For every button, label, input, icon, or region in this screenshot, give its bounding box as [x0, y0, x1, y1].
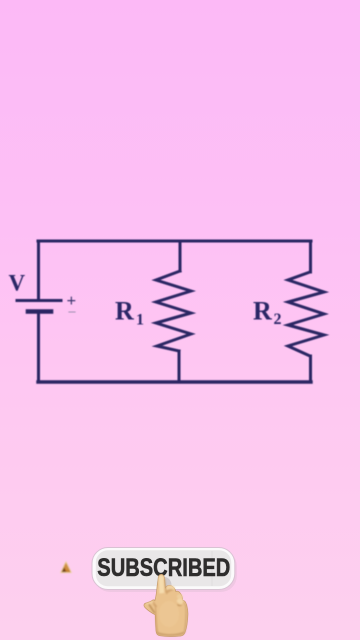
subscribed button — [92, 548, 237, 593]
thumb crease — [148, 604, 155, 613]
finger shadow on button — [165, 577, 172, 589]
wrist shadow — [157, 632, 184, 637]
play triangle — [61, 562, 72, 573]
wire right rail lower — [309, 356, 312, 382]
finger highlight — [159, 575, 164, 593]
svg-text:1: 1 — [136, 311, 144, 328]
wire bottom rail — [38, 380, 311, 383]
svg-text:R: R — [115, 297, 134, 326]
pinky notch — [184, 602, 186, 608]
wire middle branch upper — [179, 241, 182, 271]
wire left rail upper — [37, 241, 40, 299]
battery V bottom plate — [28, 309, 51, 314]
battery V top plate — [17, 299, 61, 302]
resistor R2 — [288, 272, 324, 356]
hand pointer — [144, 574, 188, 636]
svg-text:V: V — [9, 270, 26, 295]
web shading under index base — [153, 601, 158, 608]
wire right rail upper — [309, 241, 312, 272]
shadow under middle knuckle — [166, 589, 175, 595]
svg-text:–: – — [68, 304, 77, 319]
back of hand highlight — [159, 601, 179, 627]
wire left rail lower — [37, 313, 40, 382]
knuckle highlight — [166, 585, 174, 591]
hand silhouette — [144, 574, 188, 636]
svg-text:2: 2 — [274, 311, 282, 328]
resistor R1 — [156, 271, 191, 351]
index finger right crease — [165, 579, 166, 593]
palm left shadow — [155, 604, 159, 635]
thumb light top — [146, 601, 153, 605]
right side shadow — [183, 604, 187, 635]
ring band — [177, 598, 183, 604]
wire middle branch lower — [178, 351, 181, 382]
svg-text:R: R — [253, 297, 272, 326]
wire top rail — [38, 240, 311, 243]
